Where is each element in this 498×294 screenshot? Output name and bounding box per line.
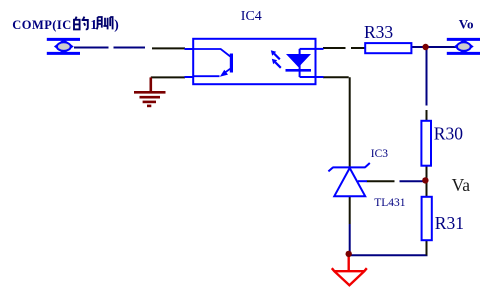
svg-text:R31: R31: [435, 213, 464, 233]
svg-text:1: 1: [90, 17, 97, 32]
svg-text:TL431: TL431: [374, 197, 406, 209]
svg-text:IC3: IC3: [371, 148, 389, 160]
svg-text:COMP(IC: COMP(IC: [12, 18, 71, 32]
svg-text:): ): [114, 17, 119, 32]
svg-text:Va: Va: [452, 175, 471, 195]
svg-text:R30: R30: [434, 124, 463, 144]
svg-text:Vo: Vo: [459, 17, 474, 32]
svg-text:R33: R33: [364, 22, 393, 42]
svg-text:IC4: IC4: [241, 9, 262, 24]
